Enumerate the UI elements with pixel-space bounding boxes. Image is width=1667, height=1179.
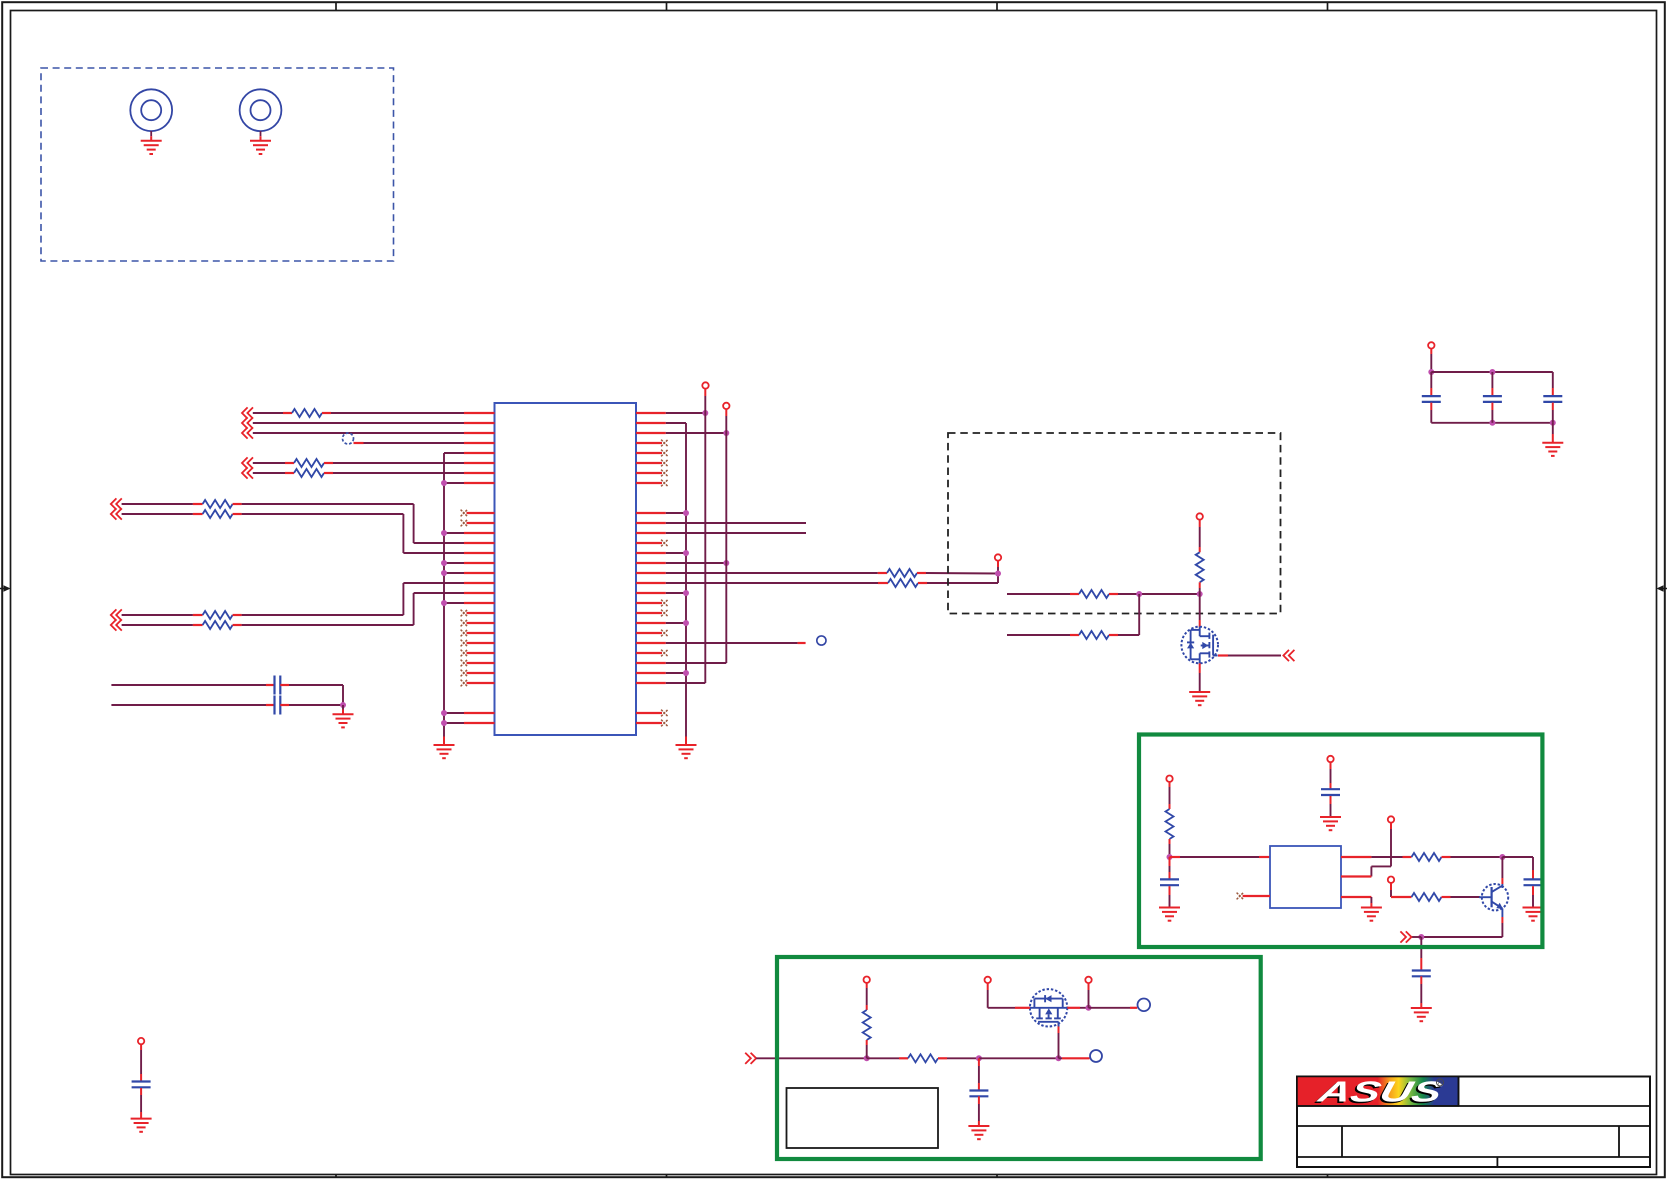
- svg-text:R: R: [1438, 1081, 1442, 1087]
- svg-text:ASUS: ASUS: [1314, 1076, 1446, 1108]
